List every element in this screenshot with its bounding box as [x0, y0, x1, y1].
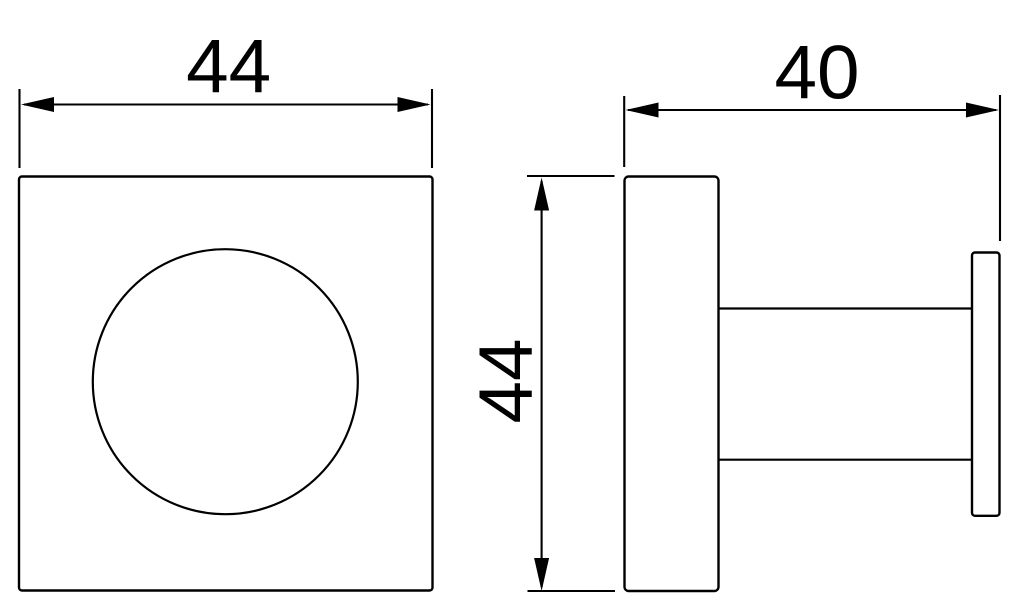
height 44 top arrowhead: [534, 178, 549, 211]
depth 40 left extension line: [623, 96, 625, 167]
width 44 left arrowhead: [21, 97, 54, 112]
height 44 bottom arrowhead: [534, 558, 549, 591]
height 44 top extension line: [527, 175, 615, 177]
svg-text:44: 44: [464, 338, 549, 423]
width 44 left extension line: [18, 89, 20, 168]
side view wall plate rectangle: [625, 177, 719, 592]
depth 40 right extension line: [999, 95, 1001, 241]
width 44 right extension line: [431, 89, 433, 168]
side view stem bottom edge: [719, 459, 973, 461]
width 44 right arrowhead: [398, 97, 431, 112]
svg-text:44: 44: [186, 25, 271, 110]
depth 40 right arrowhead: [966, 103, 999, 118]
svg-text:40: 40: [774, 31, 859, 116]
height 44 bottom extension line: [528, 590, 616, 592]
side view stem top edge: [719, 307, 973, 309]
front view faceplate square outline: [19, 177, 433, 591]
height 44 dimension line: [541, 181, 543, 587]
front view knob circle: [93, 249, 358, 514]
side view end flange rectangle: [972, 253, 1000, 516]
depth 40 left arrowhead: [626, 103, 659, 118]
width 44 dimension line: [24, 103, 428, 105]
depth 40 dimension line: [628, 109, 996, 111]
